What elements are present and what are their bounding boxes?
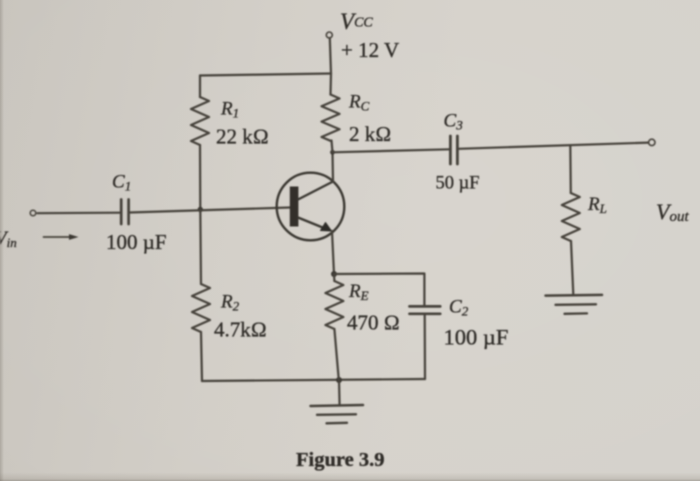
wire C1 to base — [130, 208, 290, 213]
wire RL bottom — [571, 241, 573, 295]
wire top rail — [200, 74, 331, 76]
svg-text:RL: RL — [587, 194, 607, 216]
wire RE top — [333, 274, 336, 281]
wire collector up — [331, 152, 334, 181]
svg-text:2 kΩ: 2 kΩ — [349, 122, 391, 146]
capacitor C1 — [120, 200, 123, 225]
wire Rc bottom — [332, 141, 333, 153]
wire output left — [333, 149, 450, 152]
wire Vcc stem — [330, 38, 331, 74]
svg-text:R2: R2 — [220, 292, 240, 314]
svg-text:Vout: Vout — [656, 199, 689, 225]
ground (RL) — [546, 294, 603, 297]
wire output right — [459, 143, 649, 149]
transistor Q1 — [277, 173, 345, 241]
resistor Rc — [322, 95, 340, 141]
svg-text:+ 12 V: + 12 V — [341, 38, 399, 62]
svg-text:22 kΩ: 22 kΩ — [216, 125, 269, 149]
wire RE bottom — [334, 329, 338, 380]
wire Rc top — [329, 74, 332, 95]
node ground junction — [336, 377, 342, 383]
node collector junction — [330, 150, 335, 155]
svg-text:C3: C3 — [444, 111, 464, 133]
Vcc terminal — [326, 32, 332, 38]
svg-text:4.7kΩ: 4.7kΩ — [214, 318, 267, 342]
wire R1 top — [199, 76, 201, 98]
wire R1 to base node — [199, 145, 202, 210]
node emitter junction — [331, 271, 337, 277]
ground (center) — [311, 405, 364, 406]
wire bottom rail — [202, 379, 425, 381]
Vin terminal — [30, 210, 36, 216]
wire R2 bottom — [201, 332, 202, 381]
wire node to R2 — [199, 210, 202, 285]
svg-text:C1: C1 — [112, 172, 131, 194]
resistor R1 — [191, 97, 209, 145]
capacitor C3 — [449, 136, 452, 164]
svg-text:R1: R1 — [220, 99, 239, 121]
resistor RE — [325, 281, 343, 329]
Vin arrow — [44, 236, 72, 238]
svg-text:RE: RE — [348, 281, 369, 303]
svg-text:100 µF: 100 µF — [444, 325, 509, 350]
svg-text:100 µF: 100 µF — [106, 230, 167, 254]
capacitor C2 — [410, 305, 441, 308]
wire emitter down — [332, 231, 334, 274]
svg-text:RC: RC — [348, 92, 370, 114]
wire ground stem — [338, 380, 341, 406]
wire Vin to C1 — [38, 212, 121, 215]
Vout terminal — [649, 139, 655, 145]
svg-text:470 Ω: 470 Ω — [347, 311, 400, 335]
node base junction — [198, 207, 203, 212]
svg-text:50 µF: 50 µF — [436, 174, 480, 194]
wire C2 bottom — [424, 315, 426, 379]
svg-text:VCC: VCC — [340, 9, 373, 34]
resistor RL — [562, 193, 580, 241]
resistor R2 — [192, 284, 210, 332]
wire RL top — [569, 145, 572, 193]
svg-text:Figure 3.9: Figure 3.9 — [296, 449, 384, 471]
wire C2 top — [334, 274, 424, 306]
svg-text:Vin: Vin — [0, 228, 17, 250]
svg-text:C2: C2 — [449, 297, 469, 319]
